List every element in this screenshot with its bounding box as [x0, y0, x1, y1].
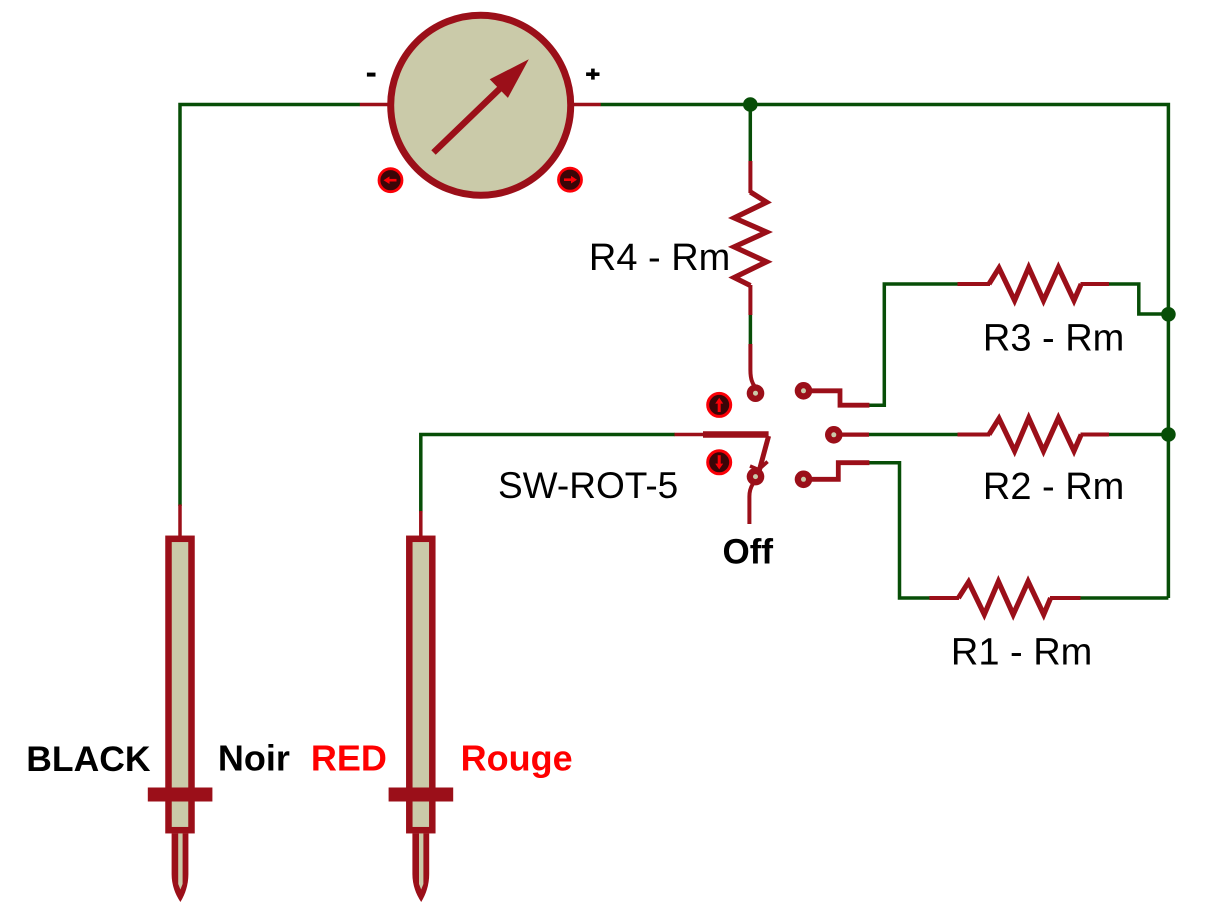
- meter right terminal button: [559, 168, 582, 191]
- wire: R4 to switch common: [749, 314, 753, 345]
- switch down button: [708, 451, 731, 474]
- BLACK probe needle: [172, 834, 189, 903]
- switch wiper diagonal: [758, 436, 769, 477]
- wire: meter minus to BLACK probe (left L-shape): [180, 105, 360, 507]
- svg-text:R2 - Rm: R2 - Rm: [983, 466, 1124, 508]
- switch contact 3 lead: [810, 463, 869, 480]
- wire: junction drop to R4: [749, 105, 753, 164]
- svg-text:SW-ROT-5: SW-ROT-5: [498, 465, 678, 506]
- RED probe needle slot: [419, 834, 423, 890]
- RED probe crossbar: [389, 788, 454, 802]
- switch wiper bar: [703, 431, 769, 438]
- svg-text:Noir: Noir: [218, 738, 290, 779]
- BLACK probe crossbar: [148, 788, 213, 802]
- switch off pin: [747, 468, 765, 486]
- switch common pin lead: [750, 344, 754, 386]
- BLACK probe pin stub: [178, 505, 182, 538]
- wire: switch middle contact to R2 left: [869, 433, 959, 437]
- resistor R1 (horizontal): [929, 582, 1080, 615]
- svg-text:BLACK: BLACK: [26, 739, 151, 779]
- wire: switch top contact to R3 left: [869, 284, 959, 405]
- meter left pin: [360, 103, 392, 107]
- RED probe body: [409, 539, 432, 830]
- svg-text:R3 - Rm: R3 - Rm: [983, 318, 1124, 360]
- meter needle shaft: [434, 76, 514, 153]
- meter needle arrowhead: [490, 59, 529, 98]
- switch up button: [708, 393, 731, 416]
- svg-text:R4 - Rm: R4 - Rm: [589, 237, 730, 279]
- RED probe needle: [412, 834, 429, 903]
- resistor R4 (vertical): [734, 161, 766, 315]
- wire: R3 right to bus: [1109, 284, 1169, 314]
- wire: R2 right to bus: [1109, 433, 1169, 437]
- meter minus sign: [367, 73, 376, 77]
- switch contact 3 (bottom right): [795, 471, 813, 489]
- switch contact 1 (top right): [795, 382, 813, 400]
- wire: RED probe riser to wiper feed: [421, 435, 675, 513]
- junction R3/bus: [1161, 307, 1176, 322]
- resistor R2 (horizontal): [958, 418, 1110, 451]
- svg-text:R1 - Rm: R1 - Rm: [951, 632, 1092, 674]
- switch contact 2 (middle right): [825, 426, 843, 444]
- wire: switch bottom contact to R1 left: [869, 463, 930, 598]
- meter right pin: [570, 103, 601, 107]
- BLACK probe needle slot: [178, 834, 182, 890]
- wire: R1 right to bus: [1080, 596, 1168, 600]
- wire: meter plus along top to right bus and down: [601, 105, 1169, 599]
- junction R2/bus: [1161, 427, 1176, 442]
- RED probe pin stub: [419, 511, 423, 538]
- switch feed pin: [675, 433, 705, 437]
- switch common pin: [747, 384, 765, 402]
- svg-text:RED: RED: [311, 737, 387, 778]
- BLACK probe body: [169, 539, 192, 830]
- svg-text:Off: Off: [723, 533, 774, 572]
- switch contact 1 lead: [810, 391, 869, 405]
- meter plus sign: [586, 69, 599, 80]
- meter M1 body: [391, 15, 571, 195]
- resistor R3 (horizontal): [958, 268, 1110, 301]
- junction top (meter+/R4/bus): [743, 97, 758, 112]
- switch off pin lead: [749, 484, 752, 524]
- switch wiper arrowhead: [750, 462, 768, 470]
- meter left terminal button: [379, 169, 402, 192]
- switch contact 2 lead: [841, 433, 869, 437]
- svg-text:Rouge: Rouge: [461, 737, 573, 778]
